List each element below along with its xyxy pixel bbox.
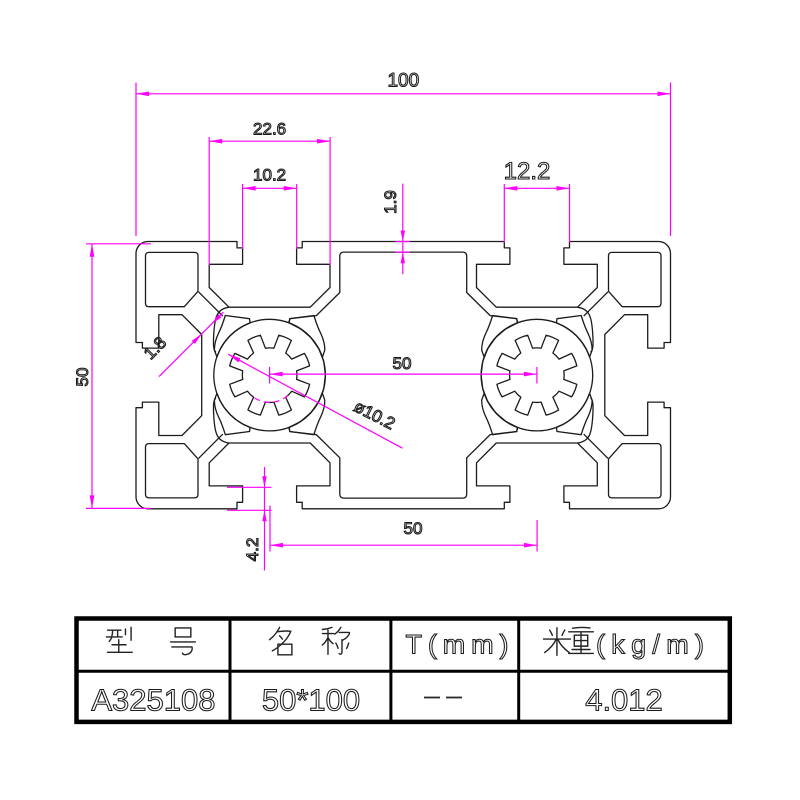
svg-text:1.9: 1.9 bbox=[381, 190, 400, 214]
svg-text:50: 50 bbox=[73, 368, 92, 387]
svg-text:4.012: 4.012 bbox=[585, 683, 663, 718]
arrowhead bbox=[90, 495, 95, 508]
corner cavity TR bbox=[609, 252, 662, 306]
gear bore 1 bbox=[230, 335, 310, 415]
no-data dashes bbox=[424, 697, 462, 699]
svg-text:A325108: A325108 bbox=[91, 683, 215, 718]
web rib line 3 bbox=[584, 292, 608, 316]
arrowhead bbox=[90, 244, 95, 257]
left boss NW pocket bbox=[289, 393, 325, 434]
svg-text:T(mm): T(mm) bbox=[406, 630, 509, 660]
svg-text:12.2: 12.2 bbox=[504, 158, 551, 185]
slot finger hook 3 bbox=[578, 307, 594, 352]
boss circle 1 bbox=[214, 319, 326, 431]
dimension texts bbox=[73, 71, 550, 562]
table latin texts bbox=[91, 630, 704, 718]
arrowhead bbox=[228, 354, 241, 362]
svg-text:50: 50 bbox=[393, 354, 412, 373]
table header hanzi bbox=[106, 627, 593, 655]
svg-text:10.2: 10.2 bbox=[253, 166, 286, 185]
arrowhead bbox=[557, 186, 570, 191]
arrowhead bbox=[401, 231, 405, 242]
right boss SW pocket bbox=[482, 393, 518, 434]
boss circle 2 bbox=[481, 319, 593, 431]
left boss NE pocket bbox=[289, 316, 325, 358]
left boss SW pocket bbox=[214, 393, 250, 434]
arrowhead bbox=[524, 372, 537, 377]
web rib line 2 bbox=[199, 434, 223, 458]
gear bore 2 bbox=[497, 335, 577, 415]
dimension 1.8 bbox=[159, 312, 224, 377]
arrowhead bbox=[270, 543, 283, 548]
dimension dia 10.2 leader bbox=[228, 354, 402, 448]
svg-text:50*100: 50*100 bbox=[262, 683, 360, 718]
arrowhead bbox=[192, 334, 202, 344]
svg-text:50: 50 bbox=[404, 519, 423, 538]
arrowhead bbox=[262, 510, 266, 521]
arrowhead bbox=[243, 186, 256, 191]
dimension 12.2 bbox=[503, 184, 505, 243]
slot finger hook 1 bbox=[213, 307, 229, 352]
web rib line 4 bbox=[584, 434, 608, 458]
web rib line 1 bbox=[199, 292, 223, 316]
right boss NW pocket bbox=[556, 393, 592, 434]
corner cavity BR bbox=[609, 444, 662, 498]
slot finger hook 4 bbox=[578, 398, 594, 443]
arrowhead bbox=[270, 372, 283, 377]
arrowhead bbox=[504, 186, 517, 191]
arrowhead bbox=[262, 476, 266, 487]
dimension 50 left bbox=[86, 243, 151, 245]
dimension 1.9 bbox=[402, 184, 404, 275]
dimension 50 bottom bbox=[269, 506, 271, 552]
svg-text:22.6: 22.6 bbox=[253, 120, 286, 139]
arrowhead bbox=[524, 543, 537, 548]
right boss SE pocket bbox=[482, 316, 518, 358]
left boss SE pocket bbox=[214, 316, 250, 358]
arrowhead bbox=[284, 186, 297, 191]
dimension 50 centers bbox=[270, 373, 537, 375]
corner cavity BL bbox=[146, 444, 199, 498]
aluminium profile cross-section line work bbox=[136, 242, 671, 509]
corner cavity TL bbox=[146, 252, 199, 306]
right boss NE pocket bbox=[556, 316, 592, 358]
profile outer contour with slot openings bbox=[136, 242, 671, 509]
arrowhead bbox=[211, 314, 221, 324]
svg-text:4.2: 4.2 bbox=[243, 538, 262, 562]
dimension 22.6 bbox=[208, 137, 210, 265]
magenta dimension lines bbox=[86, 83, 671, 571]
dimension arrowheads bbox=[90, 92, 671, 548]
arrowhead bbox=[209, 139, 222, 144]
arrowhead bbox=[658, 92, 671, 97]
central cavity bbox=[289, 252, 518, 498]
dimension 4.2 bbox=[264, 467, 266, 571]
arrowhead bbox=[317, 139, 330, 144]
arrowhead bbox=[136, 92, 149, 97]
svg-text:100: 100 bbox=[387, 71, 419, 92]
arrowhead bbox=[401, 252, 405, 263]
table borders bbox=[77, 619, 730, 722]
dimension 10.2 bbox=[242, 184, 244, 249]
slot finger hook 2 bbox=[213, 398, 229, 443]
dimension 100 ext/lines bbox=[135, 83, 137, 237]
